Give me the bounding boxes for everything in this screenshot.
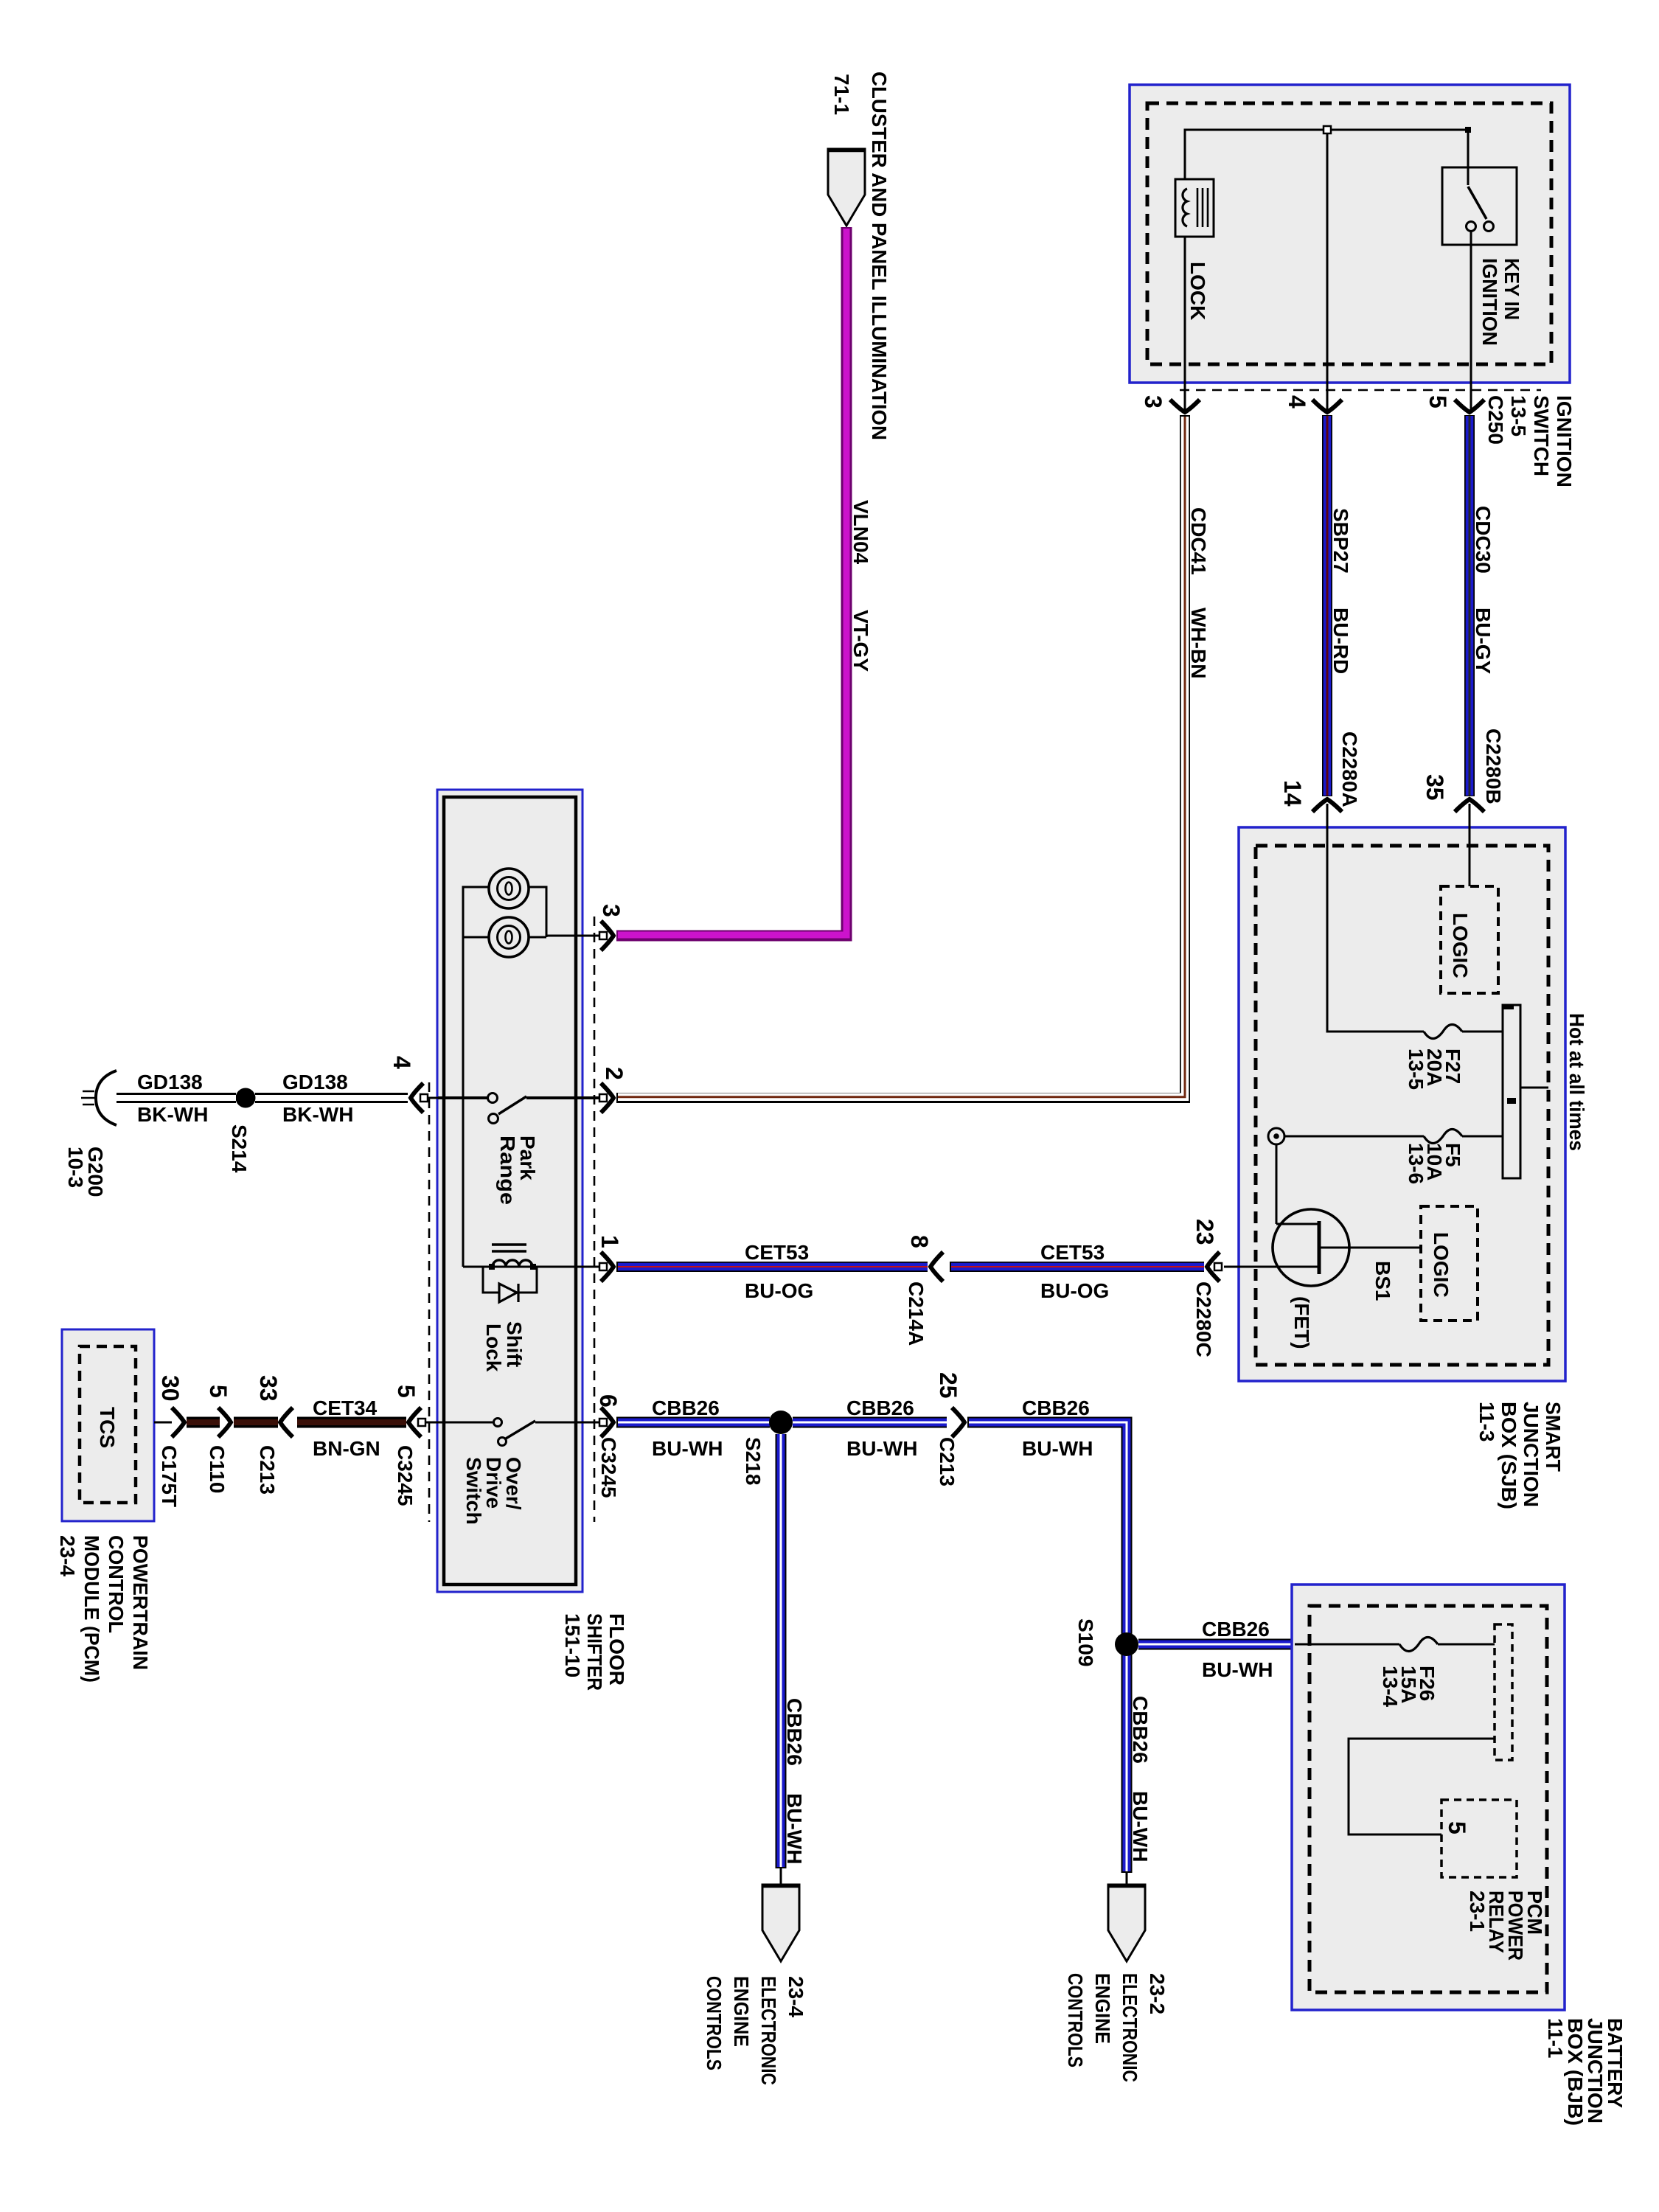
wire CBB26 BU-WH segment 2: [793, 1417, 947, 1428]
svg-text:14: 14: [1279, 780, 1306, 807]
lamp E2: [489, 917, 529, 957]
node S109 splice: [1115, 1632, 1138, 1656]
connector C175T arrow pin 30: [172, 1408, 184, 1437]
wire CET53 BU-OG right: [950, 1262, 1204, 1272]
node junction marker: [1268, 1128, 1284, 1144]
svg-text:SMART: SMART: [1542, 1402, 1565, 1472]
svg-text:11-1: 11-1: [1544, 2018, 1567, 2059]
svg-text:8: 8: [906, 1235, 933, 1248]
svg-text:LOGIC: LOGIC: [1449, 913, 1472, 978]
svg-text:1: 1: [597, 1235, 623, 1248]
label F27 20A 13-5: [1405, 1048, 1464, 1090]
label BATTERY JUNCTION BOX (BJB) 11-1: [1544, 2018, 1627, 2126]
pin 5 arrow: [1455, 400, 1484, 412]
svg-text:CLUSTER AND PANEL ILLUMINATION: CLUSTER AND PANEL ILLUMINATION: [868, 72, 891, 440]
fuse F26: [1399, 1638, 1438, 1652]
svg-text:S214: S214: [228, 1124, 251, 1173]
connector C3245 dashed line left: [428, 1082, 431, 1522]
svg-text:CET53: CET53: [1040, 1241, 1105, 1264]
svg-text:Hot at all times: Hot at all times: [1565, 1013, 1588, 1151]
svg-text:25: 25: [935, 1372, 961, 1399]
svg-text:BU-OG: BU-OG: [1040, 1279, 1109, 1302]
svg-text:(FET): (FET): [1290, 1296, 1313, 1349]
floor shifter box: [437, 790, 582, 1592]
label G200 10-3: [64, 1147, 107, 1197]
label Over/ Drive Switch: [462, 1457, 525, 1525]
svg-text:BK-WH: BK-WH: [282, 1103, 353, 1126]
wire TCS to C175T: [154, 1422, 172, 1424]
svg-text:SBP27: SBP27: [1329, 508, 1352, 574]
svg-text:S109: S109: [1074, 1618, 1097, 1666]
svg-text:C2280A: C2280A: [1338, 731, 1361, 807]
logic box U1: [1441, 886, 1498, 993]
connector pin 4 arrow and square: [411, 1083, 423, 1113]
pin 4 arrow: [1312, 400, 1342, 412]
smart junction box SJB: [1239, 827, 1565, 1381]
svg-text:WH-BN: WH-BN: [1187, 608, 1210, 678]
svg-text:10-3: 10-3: [64, 1147, 87, 1188]
svg-text:CBB26: CBB26: [783, 1698, 806, 1766]
wire VLN04 VT-GY: [616, 227, 846, 936]
wire marker to fuse F5: [1284, 1135, 1424, 1138]
svg-text:LOGIC: LOGIC: [1430, 1232, 1453, 1298]
connector 23-2 electronic engine controls: [1108, 1885, 1145, 1961]
wire pin4 branch: [1326, 133, 1329, 410]
wire CET34 segment b: [234, 1417, 278, 1428]
svg-text:BU-WH: BU-WH: [1202, 1658, 1273, 1681]
powertrain control module box: [62, 1329, 154, 1521]
svg-text:C2280B: C2280B: [1482, 728, 1505, 804]
wire lock to pin3: [1184, 237, 1186, 410]
svg-text:C213: C213: [936, 1437, 959, 1486]
svg-text:BU-WH: BU-WH: [1129, 1791, 1152, 1862]
svg-text:Switch: Switch: [462, 1457, 485, 1525]
label SMART JUNCTION BOX (SJB) 11-3: [1475, 1402, 1565, 1509]
battery junction box BJB: [1292, 1585, 1565, 2010]
label Shift Lock: [482, 1321, 526, 1372]
connector C213 arrow pin 33: [280, 1408, 293, 1437]
label F5 10A 13-6: [1405, 1143, 1464, 1184]
svg-text:CET53: CET53: [745, 1241, 809, 1264]
svg-text:5: 5: [1444, 1821, 1470, 1834]
svg-text:Shift: Shift: [503, 1321, 526, 1367]
svg-text:VT-GY: VT-GY: [849, 610, 872, 672]
svg-text:ENGINE: ENGINE: [730, 1976, 753, 2047]
svg-text:23: 23: [1192, 1219, 1218, 1245]
wire CDC41 WH-BN: [616, 415, 1185, 1098]
wire relay loop: [1349, 1739, 1495, 1834]
wire CET53 BU-OG left: [616, 1262, 928, 1272]
svg-text:GD138: GD138: [282, 1071, 348, 1093]
svg-text:5: 5: [205, 1385, 232, 1398]
shift lock coil and diode: [483, 1245, 537, 1302]
svg-text:33: 33: [255, 1375, 282, 1402]
wire switch to pin5: [1470, 232, 1472, 410]
svg-text:C3245: C3245: [597, 1437, 620, 1498]
svg-text:3: 3: [1140, 395, 1166, 408]
connector C213 arrow pin 25: [952, 1408, 964, 1437]
wire CBB26 BU-WH segment 1: [616, 1417, 770, 1428]
connector 71-1 cluster illumination: [828, 149, 865, 226]
node S214 splice: [236, 1088, 256, 1108]
svg-text:S218: S218: [742, 1437, 765, 1485]
wire pin14 to fuse F27: [1327, 804, 1424, 1032]
wire CET34 segment a: [187, 1417, 220, 1428]
svg-text:Range: Range: [496, 1135, 519, 1205]
svg-text:11-3: 11-3: [1475, 1402, 1498, 1442]
svg-text:BU-WH: BU-WH: [783, 1793, 806, 1864]
svg-text:JUNCTION: JUNCTION: [1520, 1402, 1543, 1507]
connector C2280C arrow pin 23: [1207, 1252, 1220, 1281]
label IGNITION SWITCH 13-5 C250: [1484, 395, 1576, 487]
label F26 15A 13-4: [1379, 1666, 1439, 1707]
lamp E1: [489, 869, 529, 908]
ignition switch box: [1130, 85, 1570, 383]
svg-text:BU-GY: BU-GY: [1472, 608, 1495, 675]
switch overdrive: [438, 1419, 599, 1446]
svg-text:6: 6: [595, 1394, 622, 1408]
svg-text:IGNITION: IGNITION: [1478, 258, 1501, 346]
wire internal bus: [1185, 130, 1468, 185]
wire GD138 BK-WH right: [255, 1093, 408, 1103]
wire hot feed: [1520, 1087, 1548, 1089]
svg-text:CBB26: CBB26: [846, 1397, 914, 1419]
wire marker to FET: [1276, 1144, 1278, 1224]
svg-text:SHIFTER: SHIFTER: [583, 1613, 606, 1691]
wire S218 branch down: [776, 1434, 787, 1868]
wire F27 to bus bar: [1462, 1031, 1503, 1033]
node bus junction square: [1324, 126, 1331, 133]
connector C250 dashed line: [1180, 389, 1541, 392]
fuse F5: [1424, 1130, 1462, 1144]
svg-text:C213: C213: [256, 1445, 279, 1495]
svg-text:23-4: 23-4: [56, 1535, 79, 1576]
connector pin 6 square and arrow: [599, 1419, 607, 1426]
svg-text:CDC41: CDC41: [1187, 507, 1210, 575]
connector pin 3 square and arrow: [599, 932, 607, 939]
svg-text:13-5: 13-5: [1507, 395, 1530, 437]
svg-text:CDC30: CDC30: [1472, 506, 1495, 574]
svg-text:C175T: C175T: [158, 1445, 181, 1507]
svg-text:SWITCH: SWITCH: [1530, 395, 1553, 476]
wire GD138 BK-WH left: [116, 1093, 236, 1103]
connector C214A arrow pin 8: [931, 1252, 943, 1281]
node S218 splice: [769, 1411, 793, 1434]
svg-text:C3245: C3245: [394, 1445, 417, 1506]
svg-text:CBB26: CBB26: [652, 1397, 720, 1419]
svg-text:BU-RD: BU-RD: [1329, 608, 1352, 674]
svg-text:ENGINE: ENGINE: [1091, 1973, 1114, 2044]
wire shift lock row: [463, 1266, 599, 1268]
svg-text:MODULE (PCM): MODULE (PCM): [80, 1535, 103, 1683]
connector 23-4 electronic engine controls: [762, 1885, 799, 1961]
svg-text:CET34: CET34: [313, 1397, 378, 1419]
label FLOOR SHIFTER 151-10: [561, 1613, 628, 1691]
svg-text:POWERTRAIN: POWERTRAIN: [129, 1535, 152, 1670]
svg-text:BU-WH: BU-WH: [1022, 1437, 1093, 1460]
svg-text:BN-GN: BN-GN: [313, 1437, 380, 1460]
svg-text:KEY IN: KEY IN: [1500, 258, 1523, 320]
svg-text:C110: C110: [206, 1445, 229, 1493]
svg-text:ELECTRONIC: ELECTRONIC: [757, 1976, 780, 2085]
wire lamp bus left: [463, 887, 489, 1267]
relay coil box dashed pin 5: [1441, 1800, 1517, 1877]
svg-text:BOX (SJB): BOX (SJB): [1498, 1402, 1520, 1509]
fuse F27: [1424, 1025, 1462, 1039]
svg-text:35: 35: [1422, 774, 1448, 801]
svg-text:CBB26: CBB26: [1022, 1397, 1090, 1419]
connector C3245 dashed line right: [594, 917, 596, 1522]
lock coil L1: [1175, 179, 1214, 237]
svg-text:BK-WH: BK-WH: [137, 1103, 208, 1126]
connector C2280A arrow pin 14: [1312, 799, 1342, 812]
relay contact bar dashed: [1495, 1624, 1512, 1760]
svg-text:4: 4: [389, 1056, 415, 1069]
svg-text:5: 5: [1425, 395, 1451, 408]
svg-text:C250: C250: [1484, 395, 1507, 445]
wire SBP27 BU-RD: [1322, 415, 1332, 796]
svg-text:C214A: C214A: [905, 1281, 928, 1346]
label PCM POWER RELAY 23-1: [1466, 1891, 1546, 1961]
svg-text:Lock: Lock: [482, 1324, 505, 1372]
svg-text:C2280C: C2280C: [1192, 1281, 1215, 1357]
svg-text:BU-WH: BU-WH: [652, 1437, 723, 1460]
pin 3 arrow: [1170, 400, 1200, 412]
wire BJB entry to fuse F26: [1295, 1644, 1399, 1646]
svg-text:2: 2: [601, 1067, 627, 1080]
svg-text:CONTROL: CONTROL: [105, 1535, 128, 1633]
connector pin 2 square and arrow: [599, 1094, 607, 1102]
svg-text:CBB26: CBB26: [1129, 1696, 1152, 1764]
wire stub to connector: [1126, 1873, 1128, 1885]
logic box U2: [1421, 1206, 1478, 1321]
key-in-ignition switch S1: [1442, 167, 1517, 245]
svg-text:CONTROLS: CONTROLS: [1064, 1973, 1087, 2067]
svg-text:CBB26: CBB26: [1202, 1618, 1270, 1641]
ground G200: [81, 1071, 116, 1125]
svg-text:13-4: 13-4: [1379, 1666, 1402, 1707]
label POWERTRAIN CONTROL MODULE (PCM) 23-4: [56, 1535, 152, 1683]
svg-text:BU-OG: BU-OG: [745, 1279, 813, 1302]
wire F26 to relay bar: [1438, 1644, 1495, 1646]
svg-text:LOCK: LOCK: [1186, 262, 1209, 320]
svg-text:4: 4: [1284, 395, 1310, 408]
svg-text:151-10: 151-10: [561, 1613, 584, 1677]
wire CET34 BN-GN main: [297, 1417, 406, 1428]
label 23-4 ELECTRONIC ENGINE CONTROLS: [703, 1976, 807, 2085]
connector C110 arrow pin 5: [218, 1408, 231, 1437]
svg-text:BS1: BS1: [1371, 1261, 1394, 1301]
transistor Q1 FET: [1224, 1209, 1421, 1286]
wire lamp right to pin3: [529, 887, 599, 937]
connector pin 5 arrow and square: [408, 1408, 421, 1437]
label KEY IN IGNITION: [1478, 258, 1523, 346]
svg-text:23-4: 23-4: [785, 1976, 807, 2017]
label 23-2 ELECTRONIC ENGINE CONTROLS: [1064, 1973, 1169, 2082]
wire CDC30 BU-GY: [1464, 415, 1475, 796]
connector C2280B arrow pin 35: [1455, 799, 1484, 812]
svg-text:GD138: GD138: [137, 1071, 203, 1093]
svg-text:71-1: 71-1: [830, 74, 853, 115]
wire stub to connector: [780, 1868, 782, 1885]
svg-text:BU-WH: BU-WH: [846, 1437, 917, 1460]
svg-text:FLOOR: FLOOR: [605, 1613, 628, 1686]
svg-text:TCS: TCS: [96, 1407, 119, 1448]
svg-text:5: 5: [393, 1385, 420, 1398]
svg-text:13-5: 13-5: [1405, 1048, 1427, 1090]
svg-text:23-1: 23-1: [1466, 1891, 1489, 1932]
wire F5 to bus bar: [1462, 1135, 1503, 1138]
svg-text:30: 30: [157, 1375, 184, 1402]
svg-text:ELECTRONIC: ELECTRONIC: [1119, 1973, 1141, 2082]
svg-text:13-6: 13-6: [1405, 1143, 1427, 1184]
wire pin35 to logic: [1469, 804, 1471, 886]
svg-text:3: 3: [598, 904, 625, 917]
svg-text:CONTROLS: CONTROLS: [703, 1976, 726, 2070]
label Park Range: [496, 1135, 539, 1205]
wire S109 to BJB: [1138, 1639, 1293, 1650]
bus bar: [1503, 1005, 1520, 1178]
svg-text:IGNITION: IGNITION: [1553, 395, 1576, 487]
switch park range: [438, 1093, 599, 1124]
wire CBB26 BU-WH segment 3: [967, 1422, 1127, 1873]
connector pin 1 square and arrow: [599, 1263, 607, 1270]
svg-text:23-2: 23-2: [1146, 1973, 1169, 2014]
svg-text:VLN04: VLN04: [849, 500, 872, 565]
